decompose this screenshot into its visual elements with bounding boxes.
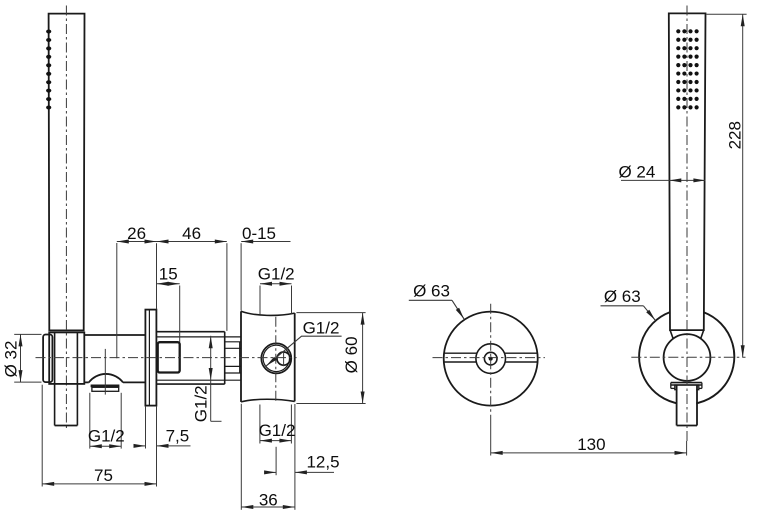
svg-text:G1/2: G1/2	[303, 319, 340, 338]
svg-text:Ø 24: Ø 24	[618, 163, 655, 182]
svg-text:130: 130	[577, 435, 605, 454]
svg-text:75: 75	[94, 466, 113, 485]
svg-text:7,5: 7,5	[166, 427, 190, 446]
svg-text:46: 46	[182, 224, 201, 243]
svg-text:26: 26	[127, 224, 146, 243]
svg-text:12,5: 12,5	[306, 452, 339, 471]
svg-text:Ø 60: Ø 60	[342, 336, 361, 373]
svg-text:Ø 63: Ø 63	[604, 287, 641, 306]
svg-text:36: 36	[259, 490, 278, 509]
svg-text:G1/2: G1/2	[258, 265, 295, 284]
svg-text:Ø 63: Ø 63	[413, 282, 450, 301]
svg-text:G1/2: G1/2	[192, 385, 211, 422]
svg-text:G1/2: G1/2	[88, 427, 125, 446]
svg-text:0-15: 0-15	[242, 224, 276, 243]
svg-text:G1/2: G1/2	[259, 421, 296, 440]
svg-text:Ø 32: Ø 32	[2, 341, 21, 378]
svg-text:15: 15	[159, 265, 178, 284]
svg-text:228: 228	[726, 121, 745, 149]
